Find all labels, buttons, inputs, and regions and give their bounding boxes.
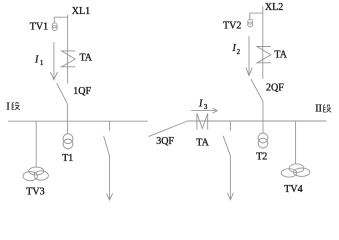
- svg-text:T2: T2: [256, 151, 267, 162]
- feeder with switch (left, on bus I): [104, 121, 113, 200]
- svg-text:I: I: [6, 102, 9, 113]
- svg-text:TV4: TV4: [284, 184, 302, 195]
- wire: XL1 incoming line vertical: [67, 15, 69, 83]
- hanzi duan (I) drawn strokes: [12, 102, 20, 110]
- svg-text:I: I: [34, 54, 39, 65]
- svg-text:1: 1: [40, 59, 44, 67]
- voltage transformer TV3 (three windings): [23, 167, 48, 181]
- svg-text:XL1: XL1: [72, 6, 90, 17]
- svg-text:T1: T1: [62, 153, 73, 164]
- wire: tie line and bus II: [187, 120, 326, 122]
- voltage transformer TV2: [248, 19, 253, 27]
- svg-text:2QF: 2QF: [266, 82, 284, 93]
- svg-text:2: 2: [237, 48, 241, 56]
- label I duan: [6, 102, 9, 113]
- voltage transformer TV4 (three windings): [281, 164, 310, 177]
- current transformer TA tie (M symbol): [197, 113, 208, 129]
- current transformer TA left (sigma symbol): [62, 51, 76, 67]
- svg-text:3: 3: [204, 103, 208, 111]
- voltage transformer TV3 drop wire: [35, 121, 37, 167]
- svg-text:1QF: 1QF: [73, 86, 91, 97]
- svg-text:TV1: TV1: [30, 22, 48, 33]
- svg-text:TV2: TV2: [223, 21, 241, 32]
- wire: below 1QF to bus I: [66, 104, 68, 121]
- circuit breaker 1QF (open blade): [57, 83, 68, 104]
- current arrow I3: [191, 108, 217, 113]
- transformer T1: [63, 134, 73, 149]
- svg-text:XL2: XL2: [265, 2, 283, 13]
- current arrow I2: [246, 36, 252, 76]
- current transformer TA right (sigma symbol): [257, 47, 271, 63]
- wire: TV1 tap stub: [54, 17, 67, 22]
- label II duan: [315, 104, 322, 115]
- voltage transformer TV1: [52, 23, 57, 31]
- svg-text:3QF: 3QF: [156, 136, 174, 147]
- svg-text:TA: TA: [80, 52, 93, 63]
- svg-text:TA: TA: [196, 137, 209, 148]
- svg-text:TV3: TV3: [26, 186, 44, 197]
- circuit breaker 2QF (open blade): [251, 79, 263, 101]
- wire: below 2QF to bus II: [262, 101, 264, 121]
- voltage transformer TV4 drop wire: [295, 121, 297, 164]
- transformer T2 drop wire: [262, 121, 264, 133]
- svg-text:TA: TA: [274, 49, 287, 60]
- hanzi duan (II) drawn strokes: [324, 105, 332, 113]
- svg-text:I: I: [198, 98, 203, 109]
- feeder with switch (middle, on bus II): [223, 121, 233, 200]
- bus I (segment I): [8, 120, 148, 122]
- transformer T1 drop wire: [67, 121, 69, 134]
- current arrow I1: [50, 42, 57, 80]
- transformer T2: [258, 133, 268, 148]
- tie breaker 3QF blade: [149, 121, 188, 137]
- svg-text:II: II: [315, 104, 322, 115]
- wire: TV2 tap stub: [250, 13, 263, 19]
- wire: XL2 incoming line vertical: [262, 6, 264, 79]
